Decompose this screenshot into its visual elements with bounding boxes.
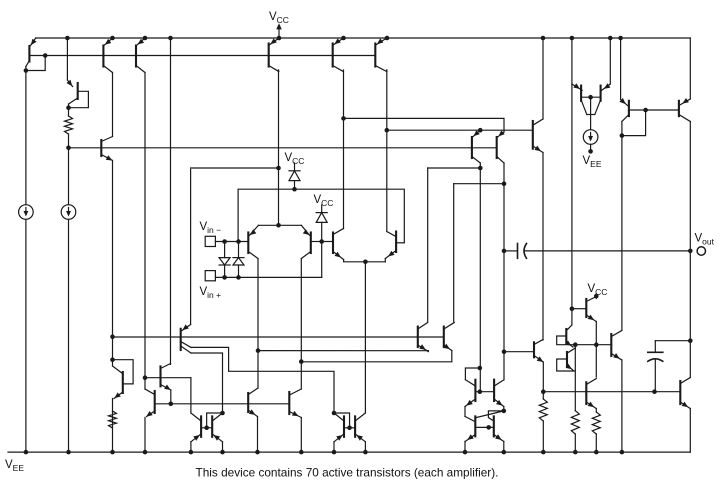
svg-text:This device contains 70 active: This device contains 70 active transisto…	[196, 466, 499, 480]
